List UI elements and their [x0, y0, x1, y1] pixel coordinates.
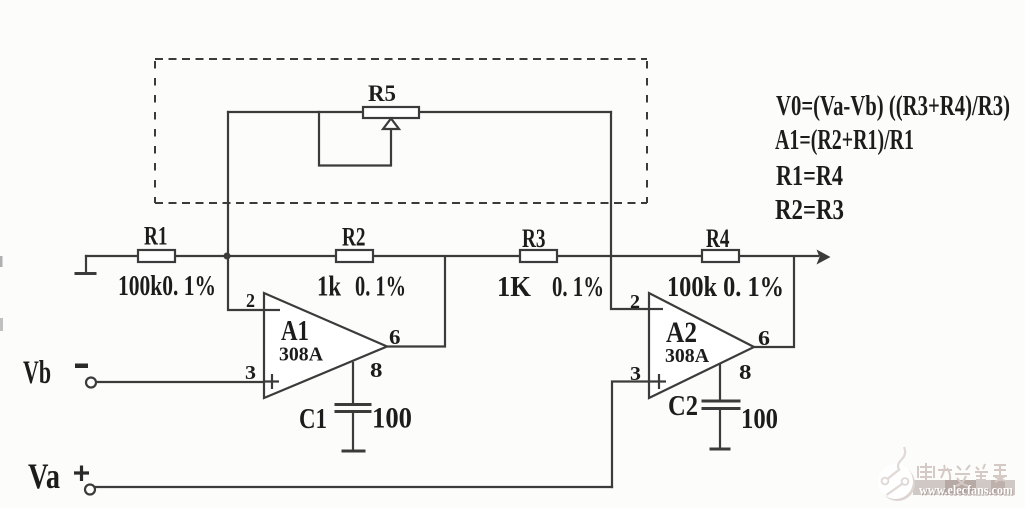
svg-text:R3: R3	[522, 224, 546, 253]
svg-text:100: 100	[372, 402, 412, 435]
svg-text:R5: R5	[368, 81, 396, 106]
svg-text:100k0. 1%: 100k0. 1%	[118, 271, 216, 302]
svg-text:0. 1%: 0. 1%	[355, 272, 406, 303]
svg-text:1k: 1k	[317, 272, 341, 303]
svg-text:A1=(R2+R1)/R1: A1=(R2+R1)/R1	[775, 124, 914, 156]
svg-text:R2=R3: R2=R3	[775, 194, 844, 226]
svg-text:R1=R4: R1=R4	[776, 160, 843, 192]
svg-text:6: 6	[389, 325, 401, 349]
svg-text:308A: 308A	[665, 345, 710, 367]
svg-text:R4: R4	[706, 224, 730, 253]
svg-text:3: 3	[630, 363, 641, 385]
svg-text:Va: Va	[28, 456, 60, 496]
svg-text:6: 6	[758, 326, 770, 350]
svg-text:2: 2	[246, 290, 255, 312]
svg-text:C2: C2	[668, 391, 698, 422]
svg-text:1K: 1K	[497, 272, 531, 303]
svg-text:308A: 308A	[279, 344, 324, 366]
svg-text:2: 2	[630, 291, 640, 313]
svg-text:100: 100	[741, 404, 778, 435]
svg-text:100k 0. 1%: 100k 0. 1%	[667, 272, 784, 303]
svg-text:R1: R1	[144, 222, 168, 251]
svg-text:0. 1%: 0. 1%	[552, 272, 604, 303]
svg-text:R2: R2	[342, 223, 366, 252]
svg-text:Vb: Vb	[23, 355, 51, 391]
svg-text:A1: A1	[281, 315, 309, 347]
svg-text:www.elecfans.com: www.elecfans.com	[919, 483, 1014, 498]
svg-text:V0=(Va-Vb) ((R3+R4)/R3): V0=(Va-Vb) ((R3+R4)/R3)	[776, 90, 1010, 122]
svg-text:3: 3	[245, 362, 256, 384]
svg-text:8: 8	[370, 358, 383, 382]
svg-text:8: 8	[739, 360, 752, 384]
svg-text:C1: C1	[299, 403, 327, 435]
